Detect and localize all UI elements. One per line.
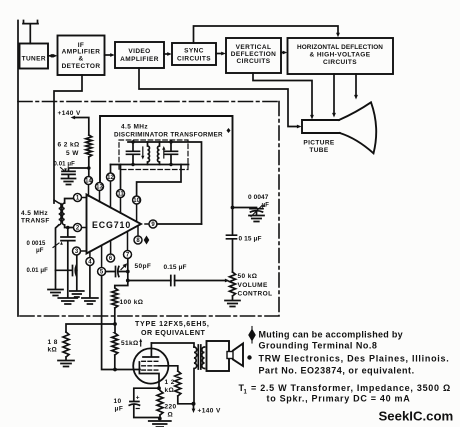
wire left boundary line <box>17 21 19 317</box>
potentiometer 50k volume control <box>230 272 236 300</box>
wire IF amp to video amp <box>105 54 111 56</box>
inductor primary tank <box>148 142 150 165</box>
ground (1.8k) <box>58 361 74 367</box>
pin 7 <box>124 251 132 259</box>
tube grids (dashed) <box>142 361 159 370</box>
block HORIZONTAL DEFLECTION & HIGH-VOLTAGE CIRCUITS <box>288 38 394 74</box>
svg-text:AMPLIFIER: AMPLIFIER <box>120 56 159 63</box>
wire sync to vertical deflection <box>216 53 222 55</box>
svg-text:1: 1 <box>244 390 248 396</box>
note muting diamond <box>248 329 256 342</box>
svg-text:kΩ: kΩ <box>165 387 175 394</box>
svg-text:TUNER: TUNER <box>22 56 46 63</box>
svg-text:DETECTOR: DETECTOR <box>62 63 101 70</box>
svg-text:VERTICAL: VERTICAL <box>236 44 272 51</box>
pin stems left <box>81 198 87 252</box>
capacitor 0.0047uF <box>233 208 264 215</box>
wire rail to pin 11 <box>120 165 122 190</box>
wire coupling line to volume control <box>128 280 225 282</box>
svg-text:PICTURE: PICTURE <box>303 140 335 147</box>
svg-text:= 2.5 W Transformer, Impedanc: = 2.5 W Transformer, Impedance, 3500 Ω <box>251 383 451 393</box>
wire output column (discriminator to volume) <box>232 207 234 272</box>
wire dash-dot sound section boundary <box>18 102 279 317</box>
pin 8 <box>134 236 142 244</box>
capacitor 10uF bypass loop <box>134 388 159 417</box>
pin 4 <box>86 258 94 266</box>
svg-text:ECG710: ECG710 <box>92 220 131 230</box>
capacitor 0.01uF (pin 3) <box>56 266 77 276</box>
svg-text:kΩ: kΩ <box>48 347 58 354</box>
node junction pin7/coupling <box>126 279 130 283</box>
inductor primary <box>54 200 61 225</box>
wire pin 3 to ground <box>76 255 78 290</box>
pin 13 <box>96 183 104 191</box>
svg-text:13: 13 <box>96 185 103 191</box>
tube cathode <box>139 362 159 388</box>
wire discriminator to pin 10 <box>137 165 181 197</box>
svg-text:OR EQUIVALENT: OR EQUIVALENT <box>141 329 205 337</box>
node junction 100k/51k/1.8k <box>113 322 117 326</box>
wire pin 4 to ground <box>89 266 91 298</box>
svg-text:SYNC: SYNC <box>184 48 204 55</box>
wire pin 5 to tube grid <box>102 276 140 370</box>
wire vertical to horizontal box <box>281 52 284 54</box>
capacitor 0.15uF (series) <box>171 276 175 286</box>
transformer T1 primary <box>194 347 197 404</box>
svg-text:CIRCUITS: CIRCUITS <box>177 56 211 63</box>
ground (transformer primary) <box>48 290 63 296</box>
svg-text:Part No. EO23874, or equivalen: Part No. EO23874, or equivalent. <box>259 366 415 376</box>
resistor 51k <box>112 324 118 370</box>
wire 6.2k to pin 14 <box>88 157 90 177</box>
svg-text:+140 V: +140 V <box>58 110 81 117</box>
wire screen grid to 1.2k <box>159 366 178 371</box>
pin 12 <box>107 173 115 181</box>
pin 5 <box>98 268 106 276</box>
pin 9 <box>149 220 157 228</box>
svg-text:&: & <box>78 56 83 63</box>
tube plate <box>143 343 159 357</box>
wire secondary to pin 1 <box>65 199 74 204</box>
wire discriminator top rail <box>128 142 202 224</box>
svg-text:11: 11 <box>117 192 124 198</box>
capacitor 50pF <box>106 267 128 277</box>
svg-text:HORIZONTAL DEFLECTION: HORIZONTAL DEFLECTION <box>297 44 383 51</box>
svg-text:CIRCUITS: CIRCUITS <box>237 58 271 65</box>
wire plate to output transformer <box>151 343 194 347</box>
ground (cathode) <box>149 421 171 427</box>
wire 1.8k to junction <box>66 324 115 332</box>
pin stems top <box>89 181 137 222</box>
ground (volume control) <box>225 301 240 307</box>
block VIDEO AMPLIFIER <box>115 42 164 68</box>
transformer shield box 4.5 MHz discriminator <box>100 116 233 207</box>
transformer T2 dashed enclosure <box>119 140 188 170</box>
wire secondary to pin 2 <box>65 225 74 228</box>
svg-text:10: 10 <box>133 198 140 204</box>
tuning arrow (down) <box>142 147 144 157</box>
node dots secondary tank <box>169 140 172 143</box>
block IF AMPLIFIER & DETECTOR <box>58 36 105 76</box>
svg-text:Muting can be accomplished by: Muting can be accomplished by <box>259 330 403 340</box>
svg-text:DEFLECTION: DEFLECTION <box>231 51 277 58</box>
pin 14 <box>85 177 93 185</box>
ground (0.0047uF) <box>249 216 264 222</box>
vacuum tube V1 12FX5/6EH5 <box>133 348 168 383</box>
capacitor primary tank <box>127 142 140 165</box>
node dots primary tank <box>131 140 134 143</box>
transformer T1 secondary <box>202 347 205 369</box>
svg-text:1 8: 1 8 <box>48 339 58 346</box>
resistor 6.2k 5W <box>86 135 92 157</box>
wire sync top to horizontal deflection <box>194 26 339 43</box>
wire tuner to IF amp <box>48 55 54 57</box>
svg-text:1 2: 1 2 <box>165 379 175 386</box>
svg-text:VOLUME: VOLUME <box>238 282 268 289</box>
svg-text:CIRCUITS: CIRCUITS <box>323 59 357 66</box>
node junction 1.2k/primary/+140V <box>192 402 196 406</box>
svg-text:μF: μF <box>36 248 44 254</box>
svg-text:0 0015: 0 0015 <box>27 241 47 247</box>
capacitor 0.0015uF <box>61 228 75 298</box>
svg-text:SeekIC.com: SeekIC.com <box>379 409 454 424</box>
wire horizontal deflection to picture tube bell <box>355 74 357 96</box>
svg-text:& HIGH-VOLTAGE: & HIGH-VOLTAGE <box>310 52 371 59</box>
svg-text:TRW Electronics, Des Plaines,: TRW Electronics, Des Plaines, Illinois. <box>259 354 450 364</box>
svg-text:0.01 μF: 0.01 μF <box>54 162 76 168</box>
wire discriminator bottom rail <box>111 164 189 166</box>
svg-text:4.5 MHz: 4.5 MHz <box>121 124 148 131</box>
svg-text:10: 10 <box>114 398 122 405</box>
svg-text:μF: μF <box>262 203 270 209</box>
node junction 0.0047 branch <box>231 206 235 210</box>
svg-text:Grounding Terminal No.8: Grounding Terminal No.8 <box>259 341 378 351</box>
node cathode junction <box>157 386 161 390</box>
speaker <box>207 341 230 371</box>
svg-text:6 2 kΩ: 6 2 kΩ <box>58 142 80 149</box>
block SYNC CIRCUITS <box>172 43 216 65</box>
pin 11 <box>117 190 125 198</box>
capacitor 0.01uF (decoupling) <box>69 168 89 171</box>
svg-text:0.15 μF: 0.15 μF <box>164 264 187 271</box>
transformer T1 core <box>198 345 201 369</box>
node +140V supply (bottom) <box>193 404 195 409</box>
wire pin 7 down / 50pF junction <box>127 259 129 281</box>
capacitor secondary tank <box>165 142 178 165</box>
svg-text:100 kΩ: 100 kΩ <box>120 299 144 306</box>
svg-text:5 W: 5 W <box>66 150 79 157</box>
node junction grid/51k <box>113 368 117 372</box>
wire horizontal deflection to picture tube neck <box>333 74 335 114</box>
pin stems bottom <box>90 224 149 268</box>
svg-text:12: 12 <box>107 175 114 181</box>
op-amp U1 ECG710 triangle <box>87 195 142 254</box>
svg-text:50pF: 50pF <box>135 263 152 270</box>
pin 6 <box>107 254 115 262</box>
pin 1 <box>74 194 82 202</box>
ground (pin 3) <box>70 291 84 297</box>
wire video amp to picture tube <box>139 68 297 127</box>
svg-text:51kΩ: 51kΩ <box>121 340 139 347</box>
wire vertical deflection to picture tube <box>253 73 312 116</box>
wire video amp to sync <box>164 53 168 55</box>
svg-text:14: 14 <box>85 179 92 185</box>
svg-text:AMPLIFIER: AMPLIFIER <box>62 49 101 56</box>
svg-text:DISCRIMINATOR TRANSFORMER: DISCRIMINATOR TRANSFORMER <box>114 132 223 139</box>
svg-text:CONTROL: CONTROL <box>238 291 273 298</box>
wire pin 9 to discriminator riser <box>157 223 202 225</box>
svg-text:Ω: Ω <box>168 412 174 419</box>
pin 3 <box>73 247 81 255</box>
svg-text:TRANSF: TRANSF <box>21 218 50 225</box>
wire IF detector output to 4.5MHz transformer <box>54 75 82 203</box>
svg-text:50 kΩ: 50 kΩ <box>238 273 258 280</box>
svg-text:0 0047: 0 0047 <box>248 194 269 201</box>
svg-text:+: + <box>136 395 140 402</box>
svg-text:+140 V: +140 V <box>198 408 221 415</box>
capacitor 0.15uF (shunt) <box>227 235 237 239</box>
svg-text:4.5 MHz: 4.5 MHz <box>21 210 48 217</box>
tuning arrow (up) <box>61 206 63 222</box>
svg-text:220: 220 <box>165 404 177 411</box>
svg-text:TYPE 12FX5,6EH5,: TYPE 12FX5,6EH5, <box>135 320 210 328</box>
svg-text:μF: μF <box>115 406 124 413</box>
note TRW bullet <box>247 355 251 359</box>
svg-text:0.01 μF: 0.01 μF <box>27 268 49 274</box>
resistor 1.2k <box>175 371 194 404</box>
block TUNER <box>20 44 49 69</box>
node junction sec/0.0015 <box>66 226 70 230</box>
svg-text:0 15 μF: 0 15 μF <box>239 235 262 242</box>
inductor secondary tank <box>158 142 160 165</box>
node 220/ground junction <box>158 417 162 421</box>
picture tube <box>302 102 376 153</box>
inductor secondary <box>62 203 64 225</box>
node junction 6.2k / 0.01uF <box>87 166 91 170</box>
pin 2 <box>74 224 82 232</box>
tuning arrow (up) <box>163 149 165 158</box>
ground (0.0015uF) <box>58 298 77 304</box>
ground (0.01uF) <box>62 179 76 185</box>
svg-text:TUBE: TUBE <box>309 147 329 154</box>
wire primary to ground <box>56 225 59 289</box>
resistor 1.8k <box>63 332 69 360</box>
block VERTICAL DEFLECTION CIRCUITS <box>226 38 281 73</box>
pin 10 <box>133 196 141 204</box>
antenna <box>23 21 38 44</box>
muting diamond marker (pin 8) <box>144 236 150 245</box>
svg-text:to Spkr., Prımary DC = 40 m: to Spkr., Prımary DC = 40 mA <box>267 394 411 404</box>
ground (pin 4) <box>82 298 98 304</box>
wire rail to pin 12 <box>110 165 112 174</box>
resistor 100k <box>112 281 128 325</box>
svg-text:VIDEO: VIDEO <box>128 48 150 55</box>
resistor 220 ohm <box>157 388 163 419</box>
